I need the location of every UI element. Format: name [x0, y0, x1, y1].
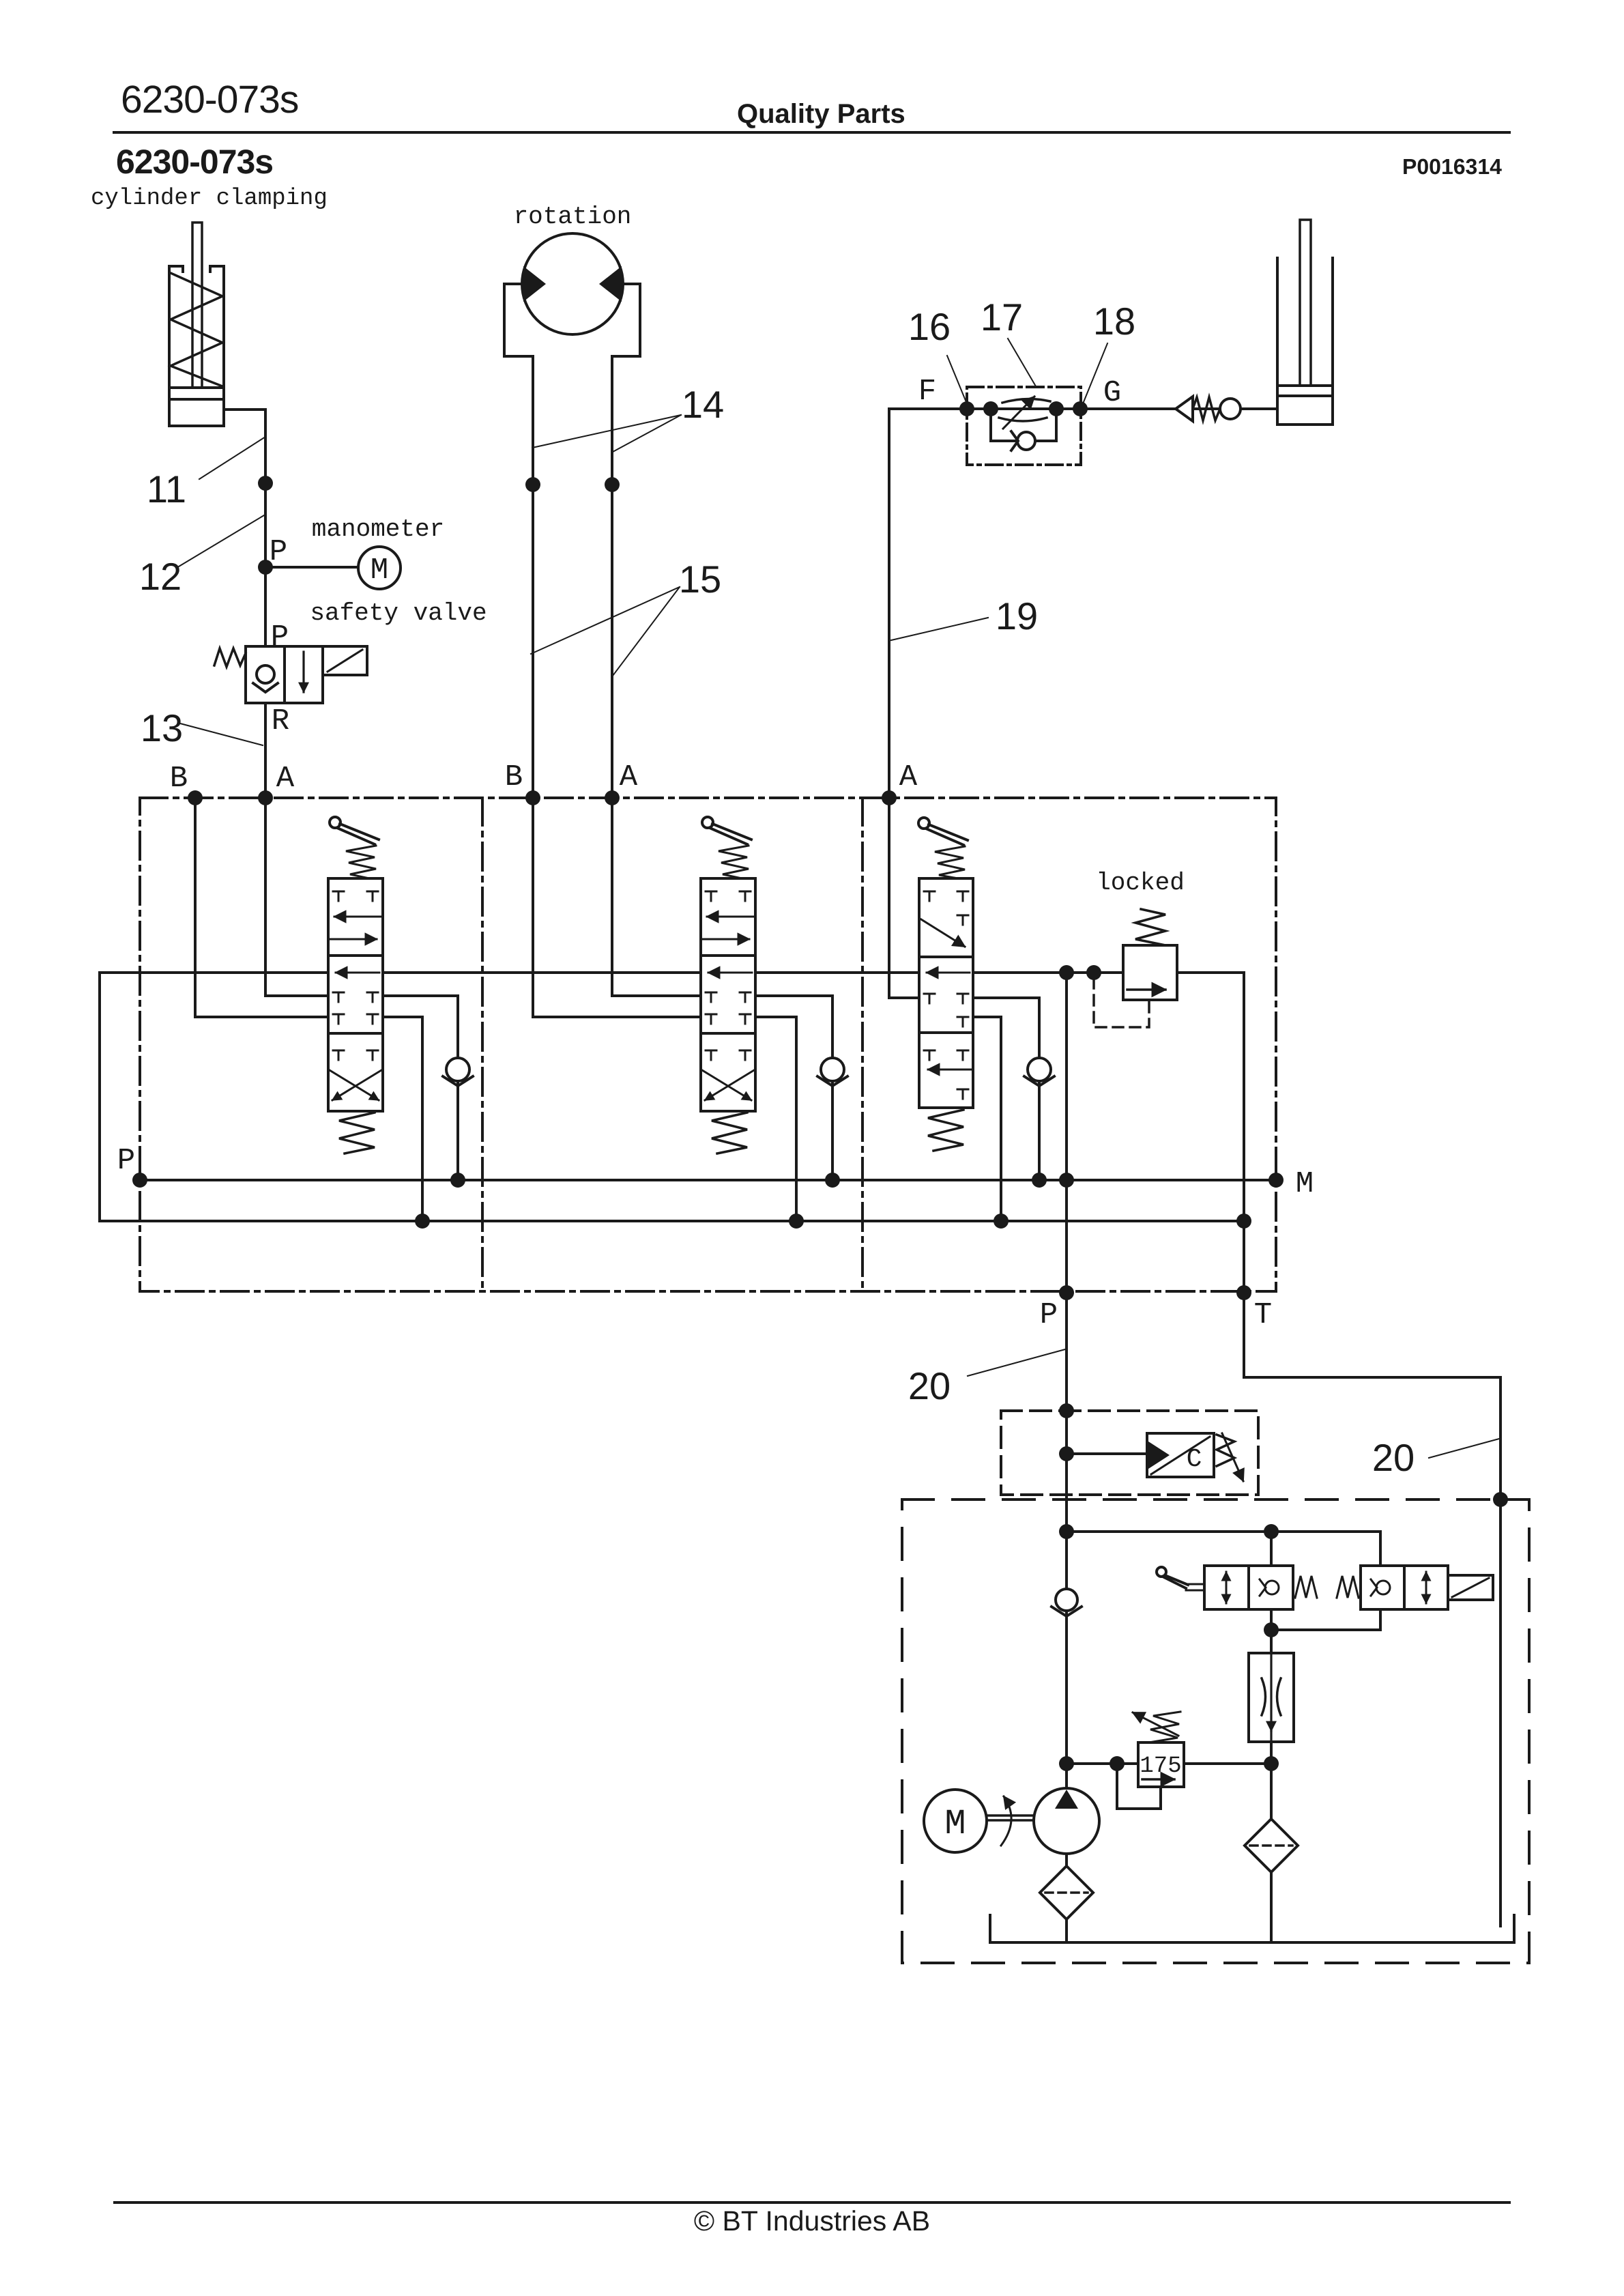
header rule [114, 131, 1509, 134]
svg-text:16: 16 [908, 305, 951, 348]
wire A2 to valve 2 [612, 798, 701, 996]
hand valve body [1204, 1566, 1293, 1609]
unloader valve C inlet arrow [1148, 1441, 1170, 1469]
svg-text:6230-073s: 6230-073s [121, 78, 298, 121]
wire cylinder port to line 11 [224, 410, 265, 646]
wire P M rail [140, 1179, 1276, 1181]
release valve solenoid [1448, 1575, 1493, 1600]
rotation motor right triangle [599, 266, 622, 302]
node T line at enclosure edge [1493, 1492, 1508, 1507]
tank [990, 1915, 1514, 1942]
wire hand valve riser [1270, 1532, 1273, 1653]
wire to unloader valve [1067, 1452, 1147, 1455]
motor shaft [987, 1816, 1035, 1820]
flow control bypass check valve [1011, 431, 1035, 450]
wire restrictor to relief rail [1270, 1742, 1273, 1764]
port label R below safety valve [272, 704, 289, 738]
wire valve 3 to check 3 [973, 998, 1039, 1180]
node P rail left [132, 1173, 147, 1188]
valve bank enclosure [140, 798, 1276, 1291]
node on line 14 A [605, 477, 620, 492]
node port T bottom [1236, 1285, 1251, 1300]
port label P bottom [1040, 1298, 1058, 1332]
label 19 [996, 594, 1038, 637]
node hand valve top [1264, 1524, 1279, 1539]
label 16 [908, 305, 951, 348]
safety valve body [246, 646, 323, 703]
clamp cylinder body [169, 266, 224, 426]
svg-text:15: 15 [679, 558, 721, 601]
release valve check ball [1371, 1579, 1390, 1596]
hand valve spring [1295, 1576, 1317, 1598]
release valve body [1361, 1566, 1448, 1609]
node manometer tee [258, 560, 273, 575]
node throttle bypass left [983, 401, 998, 416]
valve bank section divider 2 [861, 798, 864, 1291]
wire locked valve outlet [1177, 971, 1244, 974]
node port B1 [188, 790, 203, 805]
leader 20 right [1429, 1439, 1499, 1458]
node check C2 to P rail [825, 1173, 840, 1188]
leaders 14 [532, 415, 681, 452]
flow restrictor body [1249, 1653, 1294, 1742]
label 13 [141, 706, 183, 749]
label 15 [679, 558, 721, 601]
node V1 return to tank rail [415, 1214, 430, 1229]
valve V3 body [919, 878, 973, 1108]
wire hand pump rail [1067, 1532, 1380, 1630]
rotation direction arrow [1001, 1796, 1011, 1846]
wire valve 3 to tank rail [973, 1017, 1001, 1221]
wire return filter to tank [1270, 1872, 1273, 1940]
wire filter to tank [1065, 1919, 1068, 1940]
node hand valve bottom [1264, 1622, 1279, 1637]
wire valve 1 to tank rail [383, 1017, 422, 1221]
node pump riser to P rail [1059, 1173, 1074, 1188]
svg-text:13: 13 [141, 706, 183, 749]
wire manometer stub [265, 566, 358, 569]
tilt cylinder rod [1300, 220, 1311, 386]
valve V1 lever spring [346, 846, 376, 879]
wire P supply drop [1065, 1293, 1068, 1788]
svg-text:6230-073s: 6230-073s [116, 143, 273, 181]
wire valve 1 to check 1 [383, 996, 458, 1180]
node relief rail left [1059, 1756, 1074, 1771]
wire relief rail [1067, 1762, 1271, 1765]
port label G [1103, 376, 1121, 410]
leader 13 [180, 723, 263, 745]
label 18 [1093, 300, 1135, 343]
relief valve 175 label [1140, 1753, 1181, 1779]
relief valve locked spring [1135, 909, 1165, 945]
release valve double arrow [1425, 1572, 1427, 1603]
leader 17 [1008, 339, 1036, 386]
valve V1 position 2 symbols [333, 973, 379, 1024]
valve bank section divider 1 [481, 798, 484, 1291]
label 14 [682, 383, 724, 426]
svg-text:R: R [272, 704, 289, 738]
unloader enclosure [1001, 1411, 1258, 1495]
valve V3 position 2 symbols [924, 973, 970, 1027]
wire A1 to valve 1 [265, 798, 328, 996]
wire T return drop [1244, 1293, 1500, 1926]
node check C1 to P rail [450, 1173, 465, 1188]
port label A3 [899, 760, 918, 794]
valve V2 position 2 symbols [706, 973, 752, 1024]
valve V1 return spring [339, 1113, 375, 1153]
wire pump suction [1065, 1854, 1068, 1866]
svg-text:20: 20 [908, 1364, 951, 1407]
wire P riser in bank [1065, 973, 1068, 1293]
node port A2 [605, 790, 620, 805]
relief valve locked body [1123, 945, 1177, 1000]
svg-text:C: C [1187, 1445, 1202, 1474]
node F port [959, 401, 974, 416]
port label A2 [620, 760, 638, 794]
svg-text:Quality Parts: Quality Parts [737, 99, 905, 129]
flow control throttle arcs [999, 399, 1050, 421]
safety valve check ball [253, 665, 278, 692]
svg-text:P: P [1040, 1298, 1058, 1332]
flow restrictor flow arrow [1270, 1653, 1272, 1742]
node port P bottom [1059, 1285, 1074, 1300]
port label B2 [505, 760, 523, 794]
node G port [1073, 401, 1088, 416]
port label B1 [170, 762, 188, 796]
node unloader valve tee [1059, 1446, 1074, 1461]
header center title Quality Parts [737, 99, 905, 129]
suction filter [1040, 1866, 1093, 1919]
svg-text:G: G [1103, 376, 1121, 410]
footer copyright BT Industries AB [694, 2205, 930, 2237]
label 12 [139, 555, 182, 598]
electric motor M [924, 1790, 987, 1852]
svg-text:safety valve: safety valve [310, 599, 487, 627]
label manometer [312, 515, 444, 543]
node V3 return to tank rail [994, 1214, 1009, 1229]
svg-text:17: 17 [981, 296, 1023, 339]
rotation motor left triangle [523, 266, 546, 302]
rotation motor body [504, 284, 640, 356]
node relief rail right [1264, 1756, 1279, 1771]
node V2 return to tank rail [789, 1214, 804, 1229]
svg-text:19: 19 [996, 594, 1038, 637]
leader 11 [199, 437, 265, 479]
wire return filter drop [1270, 1764, 1273, 1819]
unloader valve C label [1187, 1445, 1202, 1474]
wire tank return line [100, 1220, 1244, 1222]
node pump riser to open center [1059, 965, 1074, 980]
svg-text:cylinder clamping: cylinder clamping [91, 186, 328, 212]
valve V1 position 3 symbols [330, 1050, 381, 1100]
svg-text:manometer: manometer [312, 515, 444, 543]
svg-text:P: P [117, 1144, 135, 1178]
rotation motor circle [522, 233, 623, 334]
leader 12 [179, 515, 264, 566]
svg-text:T: T [1254, 1298, 1272, 1332]
valve V2 body [701, 878, 755, 1111]
node on line 14 B [525, 477, 540, 492]
leader 16 [947, 356, 968, 405]
subtitle cylinder clamping [91, 186, 328, 212]
hand valve double arrow [1226, 1572, 1228, 1603]
flow restrictor orifice [1262, 1678, 1281, 1715]
check valve C1 [443, 1058, 473, 1086]
safety valve solenoid [323, 646, 367, 675]
header title 6230-073s [121, 78, 298, 121]
wire safety valve to port A [264, 703, 267, 798]
clamp cylinder spring [171, 273, 222, 386]
label rotation [514, 203, 632, 231]
hand valve check ball [1260, 1579, 1279, 1596]
wire line 19 vertical [888, 409, 890, 798]
check valve C3 [1024, 1058, 1054, 1086]
leader 18 [1082, 343, 1107, 405]
wire motor port B [532, 356, 534, 798]
valve V2 return spring [712, 1113, 747, 1153]
svg-text:P0016314: P0016314 [1402, 154, 1502, 179]
label locked [1096, 869, 1185, 897]
relief valve 175 body [1138, 1742, 1184, 1787]
svg-text:175: 175 [1140, 1753, 1181, 1779]
wire F G line [889, 407, 1277, 410]
svg-text:A: A [899, 760, 918, 794]
safety valve spring [214, 648, 246, 667]
relief valve 175 flow arrow [1142, 1778, 1174, 1781]
valve V3 lever spring [935, 846, 965, 879]
svg-text:20: 20 [1372, 1436, 1415, 1479]
port label A1 [276, 762, 295, 796]
valve V2 lever spring [719, 846, 749, 879]
hydraulic pump [1034, 1788, 1099, 1854]
svg-text:M: M [944, 1804, 966, 1844]
wire B1 to valve 1 [195, 798, 328, 1017]
svg-text:11: 11 [147, 468, 186, 511]
valve V1 position 1 symbols [330, 891, 381, 939]
node check C3 to P rail [1032, 1173, 1047, 1188]
label safety valve [310, 599, 487, 627]
valve V1 lever [330, 817, 379, 844]
valve V2 lever [702, 817, 751, 844]
footer rule [115, 2201, 1509, 2204]
manometer gauge M [358, 547, 401, 589]
pilot line locked valve [1094, 978, 1149, 1027]
wire B2 to valve 2 [533, 798, 701, 1017]
node relief return tee [1110, 1756, 1125, 1771]
svg-text:A: A [620, 760, 638, 794]
wire T riser [1243, 973, 1245, 1293]
svg-text:© BT Industries AB: © BT Industries AB [694, 2205, 930, 2237]
label 17 [981, 296, 1023, 339]
wire open center line [100, 971, 1123, 974]
svg-text:A: A [276, 762, 295, 796]
node unloader enclosure top [1059, 1403, 1074, 1418]
check valve with spring on G line [1176, 397, 1241, 421]
wire motor port A [611, 356, 613, 798]
relief valve 175 adjust arrow [1133, 1712, 1178, 1736]
leaders 15 [531, 587, 680, 676]
svg-text:F: F [918, 375, 936, 409]
svg-text:locked: locked [1096, 869, 1185, 897]
svg-text:18: 18 [1093, 300, 1135, 343]
safety valve flow arrow [302, 652, 304, 692]
node hand pump rail tee [1059, 1524, 1074, 1539]
port label P above safety valve [271, 620, 289, 655]
svg-text:B: B [505, 760, 523, 794]
node port A1 [258, 790, 273, 805]
wire valve 2 to check 2 [755, 996, 832, 1180]
valve V3 return spring [928, 1110, 963, 1151]
wire valve 2 to tank rail [755, 1017, 796, 1221]
valve V2 position 3 symbols [702, 1050, 754, 1100]
label 11 [147, 468, 186, 511]
return filter [1245, 1819, 1298, 1872]
power unit enclosure [902, 1499, 1529, 1963]
node on line 11 [258, 476, 273, 491]
node M port [1268, 1173, 1284, 1188]
check valve C2 [817, 1058, 847, 1086]
clamp cylinder rod [192, 223, 202, 388]
valve V3 lever [918, 818, 968, 845]
release valve spring [1337, 1576, 1359, 1598]
svg-text:B: B [170, 762, 188, 796]
flow control adjust arrow [1003, 397, 1034, 429]
hand valve lever [1157, 1567, 1204, 1590]
svg-text:rotation: rotation [514, 203, 632, 231]
node locked valve pilot tee [1086, 965, 1101, 980]
valve V1 body [328, 878, 383, 1111]
valve V3 position 3 symbols [924, 1050, 972, 1099]
tilt cylinder body [1277, 258, 1333, 425]
label 20 right [1372, 1436, 1415, 1479]
check valve on P supply [1052, 1589, 1082, 1616]
port label T bottom [1254, 1298, 1272, 1332]
node port A3 [882, 790, 897, 805]
label 20 left [908, 1364, 951, 1407]
leader 20 left [968, 1349, 1065, 1376]
subtitle 6230-073s bold [116, 143, 273, 181]
port label P at node 12 [270, 535, 287, 569]
svg-text:M: M [371, 554, 388, 588]
valve V2 position 1 symbols [702, 891, 754, 939]
node throttle bypass right [1049, 401, 1064, 416]
port label P left [117, 1144, 135, 1178]
flow control bypass loop [991, 409, 1056, 441]
wire A3 to valve 3 [889, 798, 919, 998]
node tank rail to T riser [1236, 1214, 1251, 1229]
port label M right [1296, 1167, 1314, 1201]
doc number P0016314 [1402, 154, 1502, 179]
flow control valve 17 enclosure [967, 387, 1081, 465]
svg-text:14: 14 [682, 383, 724, 426]
leader 19 [891, 618, 988, 640]
wire relief valve return loop [1117, 1764, 1161, 1809]
unloader valve C body [1147, 1433, 1214, 1477]
port label F [918, 375, 936, 409]
wire open center left drop [98, 973, 101, 1221]
node port B2 [525, 790, 540, 805]
svg-text:M: M [1296, 1167, 1314, 1201]
relief valve 175 spring [1149, 1712, 1180, 1742]
unloader valve C adjust arrow [1222, 1433, 1243, 1481]
svg-text:12: 12 [139, 555, 182, 598]
valve V3 position 1 symbols [921, 891, 968, 947]
unloader valve C spring [1217, 1435, 1234, 1466]
